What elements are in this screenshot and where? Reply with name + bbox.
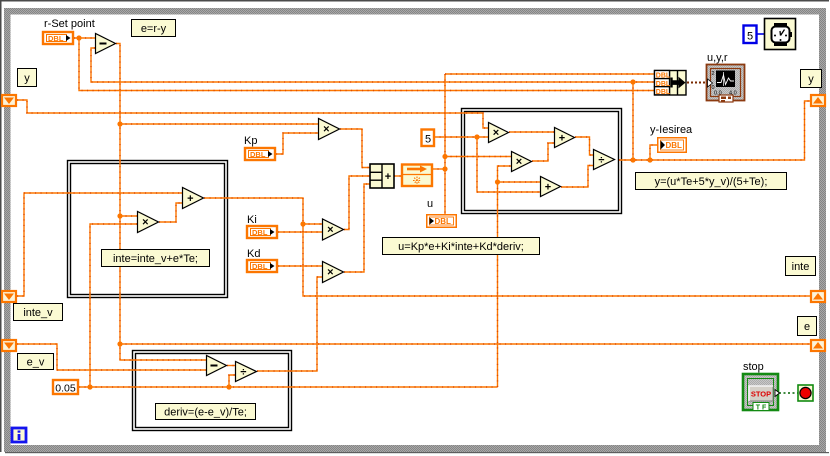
svg-text:DBL: DBL xyxy=(435,217,452,226)
svg-text:÷: ÷ xyxy=(598,155,604,167)
svg-text:T F: T F xyxy=(756,405,767,412)
svg-text:0.05: 0.05 xyxy=(55,383,76,395)
svg-text:+: + xyxy=(385,171,391,183)
svg-text:Kp: Kp xyxy=(244,135,257,147)
svg-text:+: + xyxy=(187,193,193,205)
svg-text:r-Set point: r-Set point xyxy=(44,18,95,30)
svg-text:u=Kp*e+Ki*inte+Kd*deriv;: u=Kp*e+Ki*inte+Kd*deriv; xyxy=(398,241,524,253)
svg-text:×: × xyxy=(327,267,333,279)
svg-text:e_v: e_v xyxy=(27,357,45,369)
svg-text:+: + xyxy=(545,181,551,193)
svg-text:u,y,r: u,y,r xyxy=(707,52,728,64)
svg-text:DBL: DBL xyxy=(250,150,266,159)
svg-text:×: × xyxy=(323,124,329,136)
svg-text:y: y xyxy=(808,74,814,86)
svg-text:×: × xyxy=(516,156,522,168)
svg-text:DBL: DBL xyxy=(666,141,683,150)
svg-text:5: 5 xyxy=(747,31,753,43)
svg-text:×: × xyxy=(327,224,333,236)
svg-text:Ki: Ki xyxy=(247,214,257,226)
svg-text:y-Iesirea: y-Iesirea xyxy=(650,124,693,136)
svg-text:÷: ÷ xyxy=(240,367,246,379)
svg-text:deriv=(e-e_v)/Te;: deriv=(e-e_v)/Te; xyxy=(164,407,247,419)
svg-text:e: e xyxy=(804,321,810,333)
svg-text:Kd: Kd xyxy=(247,248,260,260)
svg-text:+: + xyxy=(559,132,565,144)
svg-text:DBL: DBL xyxy=(252,262,268,271)
svg-text:DBL: DBL xyxy=(656,89,671,96)
svg-text:y: y xyxy=(24,73,30,85)
svg-text:×: × xyxy=(142,217,148,229)
svg-text:5: 5 xyxy=(425,134,431,146)
svg-text:2: 2 xyxy=(712,71,715,77)
svg-text:inte=inte_v+e*Te;: inte=inte_v+e*Te; xyxy=(113,253,198,265)
svg-text:DBL: DBL xyxy=(48,34,64,43)
svg-text:DBL: DBL xyxy=(252,228,268,237)
svg-text:×: × xyxy=(493,127,499,139)
svg-text:STOP: STOP xyxy=(751,390,771,399)
svg-text:inte: inte xyxy=(792,261,810,273)
svg-text:e=r-y: e=r-y xyxy=(141,23,167,35)
svg-text:u: u xyxy=(427,198,433,210)
svg-text:inte_v: inte_v xyxy=(23,307,53,319)
svg-text:y=(u*Te+5*y_v)/(5+Te);: y=(u*Te+5*y_v)/(5+Te); xyxy=(655,176,768,188)
svg-text:stop: stop xyxy=(743,361,764,373)
